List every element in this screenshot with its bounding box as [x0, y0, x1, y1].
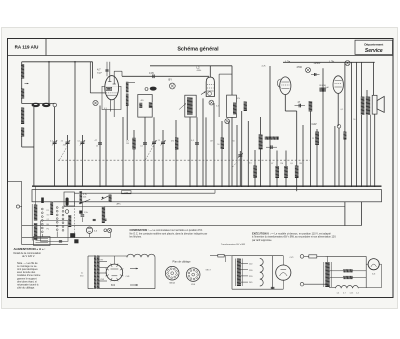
svg-text:L3a: L3a: [286, 60, 291, 64]
svg-text:4,7: 4,7: [343, 293, 346, 295]
wire drop x67.5: [67, 135, 69, 186]
wire x297 drop: [296, 186, 298, 191]
wire left vertical antenna lead: [21, 62, 23, 104]
switch small box: [34, 237, 51, 246]
speaker frame: [372, 95, 377, 114]
volume pot bar: [66, 198, 69, 206]
PSU-B tube: [276, 265, 291, 280]
osc coil core line: [31, 204, 33, 241]
resistor bar x81: [80, 191, 83, 204]
svg-text:de V 120 V.: de V 120 V.: [22, 255, 35, 258]
svg-text:2µF: 2µF: [325, 87, 329, 89]
V1 resistor top wire: [129, 81, 136, 83]
tube V4 electrodes: [335, 80, 342, 82]
PSU-C transformer winding: [325, 262, 329, 287]
trimmer circle: [53, 103, 57, 107]
wire y237.3: [22, 236, 111, 238]
wire drop x303: [302, 125, 304, 186]
inner box line: [75, 192, 216, 194]
wire drop x351: [351, 62, 353, 186]
wire drop x374: [374, 114, 376, 186]
tube V1 grids: [106, 92, 118, 94]
svg-text:SECT: SECT: [206, 270, 212, 272]
wire drop x255: [254, 150, 256, 186]
wire drop x82.4: [81, 135, 83, 186]
PSU-A left lead: [87, 256, 89, 289]
svg-text:465: 465: [141, 100, 144, 102]
osc coil top lead: [35, 186, 37, 204]
screw x349: [345, 61, 350, 66]
resistor on x317: [315, 132, 319, 145]
screw mark under V1: [93, 100, 98, 105]
wire drop x100: [99, 106, 101, 187]
wire drop x241: [241, 111, 243, 186]
svg-text:25: 25: [61, 140, 63, 142]
resistor on x222: [221, 138, 224, 150]
capacitor on x197: [195, 142, 199, 144]
output arrow top: [130, 268, 138, 270]
resistor on x176: [175, 138, 178, 150]
svg-text:ALIMENTATION « A » :: ALIMENTATION « A » :: [14, 247, 46, 251]
cap x60 y240: [59, 240, 62, 242]
wire drop x190: [189, 117, 191, 186]
wire drop x154: [153, 117, 155, 186]
svg-text:0,05: 0,05: [149, 72, 154, 75]
svg-text:4,7: 4,7: [97, 68, 101, 72]
gang diagonal 3: [233, 159, 241, 167]
pot circle below: [65, 210, 69, 214]
svg-text:50: 50: [217, 144, 219, 146]
PSU-C tube: [368, 259, 379, 270]
wire x361 drop: [360, 202, 362, 226]
resistor on x286: [284, 166, 288, 178]
wire drop x286: [285, 151, 287, 187]
IF1 resistor a: [139, 103, 142, 108]
PSU-A taps: [100, 261, 108, 263]
switch contacts column 1: [56, 207, 58, 209]
tuning cap on x163: [161, 141, 165, 143]
PSU-B tube leads: [282, 256, 284, 265]
screw x339: [337, 125, 341, 129]
resistor right of V1 upper: [126, 82, 129, 93]
tube V2 right vertical: [218, 74, 220, 117]
wire drop x145: [144, 117, 146, 186]
svg-text:2M: 2M: [299, 163, 302, 165]
tube V2 envelope: [206, 77, 214, 96]
cap blob below x81: [79, 211, 82, 214]
junction dot x49: [48, 61, 50, 63]
svg-text:0,5: 0,5: [290, 163, 293, 165]
rail right y62.3: [283, 61, 375, 63]
svg-text:Plan de câblage: Plan de câblage: [173, 260, 192, 263]
tube V1 top leads: [109, 62, 111, 82]
svg-text:25: 25: [312, 138, 314, 140]
tube base diagram 2: [186, 268, 200, 282]
tube V1 leads: [109, 100, 111, 112]
svg-text:1,4: 1,4: [337, 293, 340, 295]
capacitor 47 horizontal: [298, 104, 300, 108]
wire drop x335: [334, 126, 336, 186]
tuning cap 3: [80, 141, 84, 143]
svg-text:4700: 4700: [297, 66, 303, 69]
tube V4 envelope: [333, 76, 343, 94]
svg-text:50pF: 50pF: [97, 72, 103, 74]
PSU-A transformer secondary: [97, 256, 100, 290]
resistor x103: [102, 207, 105, 223]
PSU-B right vertical: [272, 256, 274, 290]
label 122 box: [122, 191, 132, 194]
capacitor on x100: [98, 142, 102, 144]
output transformer bottom leads: [360, 115, 362, 186]
resistor bar x69: [68, 215, 71, 227]
vertical drops osc: [41, 234, 43, 237]
PSU-C tap resistor 1: [343, 269, 352, 272]
resistor on x134: [132, 138, 135, 150]
wire drop x206: [205, 117, 207, 186]
wire grid feed: [92, 62, 94, 79]
tube V2 rail right: [219, 73, 232, 75]
PSU-C terminal bottom: [300, 282, 304, 286]
wire drop x237: [236, 125, 238, 186]
svg-text:1M: 1M: [210, 140, 213, 142]
svg-text:Schéma général: Schéma général: [177, 47, 219, 53]
wire V1 to rail y71: [114, 70, 122, 72]
switch unit box: [64, 192, 75, 206]
grid capacitor lead V1: [106, 62, 108, 77]
resistor on x255: [253, 166, 257, 178]
output transformer secondary: [366, 97, 370, 115]
screw mark x227: [225, 119, 230, 124]
resistor x245: [244, 102, 247, 112]
wire drop x49: [48, 62, 50, 103]
svg-text:6,3: 6,3: [216, 106, 219, 108]
wire y205.8: [64, 206, 345, 208]
wire drop x339b: [338, 128, 340, 186]
tube V4 bottom lead: [337, 93, 339, 126]
IF1 resistor b: [149, 102, 152, 107]
svg-text:4,7: 4,7: [50, 140, 53, 142]
big resistor on x260: [259, 134, 263, 149]
PSU-C tap resistor 2: [343, 276, 352, 279]
speaker top lead: [373, 62, 375, 95]
wire top rail left: [22, 61, 93, 63]
padder capacitor blob 1: [32, 103, 40, 107]
tube V3 envelope: [280, 77, 291, 95]
wire drop x106: [105, 110, 107, 187]
dashed gang line: [58, 159, 310, 161]
wire drop x323: [322, 68, 324, 186]
tube V2 grids: [207, 84, 214, 86]
wire drop x197: [196, 117, 198, 186]
PSU-C core lines: [323, 262, 325, 287]
PSU-C left lead: [327, 256, 329, 262]
small cap x94: [93, 218, 96, 220]
trimmer x315: [314, 73, 316, 76]
PSU-B tap labels: [241, 263, 248, 265]
svg-text:0,1: 0,1: [140, 145, 143, 147]
svg-text:Service: Service: [365, 48, 383, 54]
svg-text:0,1: 0,1: [78, 140, 81, 142]
antenna coil L1b: [21, 89, 24, 99]
PSU-A right vertical: [154, 257, 156, 289]
speaker cone: [377, 96, 384, 112]
wire drop x232: [231, 66, 233, 95]
svg-text:47k: 47k: [237, 98, 240, 100]
left vertical x21.7 low: [21, 182, 23, 245]
resistor RG horizontal x265: [265, 137, 279, 140]
PSU-B top rail: [232, 255, 283, 257]
svg-text:25: 25: [96, 146, 98, 148]
wire coil tap: [22, 103, 55, 105]
wire drop x134: [133, 130, 135, 186]
capacitor x82: [81, 214, 85, 216]
switch arrow low: [80, 199, 90, 203]
rectifier vertical lead: [113, 256, 115, 264]
resistor on x296: [295, 166, 299, 179]
svg-text:25: 25: [158, 140, 160, 142]
svg-text:+250V: +250V: [314, 62, 321, 65]
coupling arrow: [25, 83, 29, 85]
svg-text:47k: 47k: [171, 140, 174, 142]
wire y244.6: [22, 244, 68, 246]
wire into V1 left: [89, 62, 91, 93]
PSU-B frame verticals: [231, 256, 233, 290]
box resistor: [233, 103, 236, 115]
antenna coil L2a: [21, 108, 24, 125]
chassis bus: [32, 185, 382, 187]
padder capacitor blob 2: [42, 103, 50, 107]
svg-text:CAV: CAV: [312, 122, 317, 126]
svg-text:1M: 1M: [280, 163, 283, 165]
svg-text:Département: Département: [364, 43, 383, 47]
tube V1 inner anode box: [106, 87, 112, 90]
dial assembly long box: [32, 190, 382, 202]
svg-text:1M: 1M: [126, 143, 129, 145]
wire drop x54.6: [54, 107, 56, 186]
wire drop x214: [213, 103, 215, 186]
wire drop x248: [247, 121, 249, 186]
PSU-C heater squiggle: [336, 285, 359, 288]
resistor on x277: [275, 166, 279, 178]
wire drop x229: [228, 121, 230, 186]
output transformer top leads: [360, 62, 362, 96]
svg-text:50k: 50k: [83, 197, 86, 199]
PSU-A top wire: [100, 255, 128, 257]
wire drop x163: [162, 130, 164, 186]
tuning cap 2: [66, 141, 70, 143]
wire antenna lower lead: [21, 137, 23, 148]
PSU-B input resistor: [218, 254, 224, 257]
tube V3 electrodes: [281, 81, 289, 83]
dark component y239: [74, 239, 78, 243]
svg-text:50: 50: [353, 119, 355, 121]
antenna coil L2b: [21, 128, 24, 137]
screw mark BY: [169, 83, 175, 89]
pickup stub: [104, 207, 106, 222]
wire V3 bottom: [284, 95, 286, 112]
osc coil a: [34, 205, 37, 221]
screw x109 y230: [108, 228, 112, 232]
PSU-A transformer primary: [94, 256, 97, 290]
wire drop x277: [276, 151, 278, 187]
svg-text:AFC: AFC: [117, 203, 122, 206]
tube base diagram 1: [165, 266, 179, 280]
svg-text:6BQ5: 6BQ5: [169, 283, 175, 285]
resistor vertical x310: [309, 101, 313, 111]
switch contacts column 2: [62, 207, 64, 209]
dark component y233: [70, 233, 75, 238]
svg-text:6,3: 6,3: [104, 108, 107, 110]
pickup jack circle: [104, 229, 107, 232]
tuning cap on x240: [238, 154, 242, 156]
PSU-C top rail: [326, 255, 367, 257]
tube V3 hook: [277, 79, 280, 87]
resistor on x345: [343, 132, 346, 140]
svg-text:0,5: 0,5: [249, 162, 252, 164]
tube V2 arrow left: [201, 92, 206, 95]
svg-text:1,4: 1,4: [356, 293, 359, 295]
small grid-cap circle: [145, 88, 148, 91]
terminal left: [16, 205, 19, 208]
capacitor 47 on rail: [270, 145, 272, 149]
resistor x110: [109, 195, 112, 202]
PSU-B secondary loops: [260, 259, 263, 287]
outer schematic frame: [8, 39, 394, 298]
PSU-C bottom rail: [358, 287, 381, 289]
svg-text:1,25: 1,25: [350, 293, 354, 295]
wire drop x123: [122, 117, 124, 186]
rectifier pins: [120, 275, 123, 276]
svg-text:côté du câblage.: côté du câblage.: [17, 286, 35, 289]
tuning cap 1: [53, 141, 57, 143]
tube V2 inner circle: [208, 92, 212, 96]
junction dot x75: [74, 61, 76, 63]
gang diagonal 1: [60, 146, 68, 160]
wire drop x345: [344, 62, 346, 186]
wire drop x296: [296, 111, 298, 186]
svg-text:L3b: L3b: [330, 60, 335, 64]
wire drop x356: [356, 62, 358, 186]
box right of V2: [227, 95, 237, 117]
shield box behind V1: [102, 86, 121, 109]
wire x127 drop: [126, 106, 128, 140]
IF transformer 2 box: [185, 95, 196, 117]
wire drop x370: [369, 115, 371, 186]
dashed link vertical: [74, 203, 76, 239]
wire left frame link: [8, 181, 22, 183]
wire drop x176: [175, 120, 177, 186]
wire drop x317: [316, 129, 318, 186]
osc tube circle: [86, 227, 92, 233]
svg-text:1,5k: 1,5k: [84, 212, 88, 214]
PSU-C tube leads: [365, 256, 367, 287]
PSU-B core lines: [235, 259, 237, 287]
osc bar x42 top: [41, 198, 44, 204]
wire rail y65.8: [150, 65, 232, 67]
PSU-C fuse: [309, 255, 317, 258]
svg-text:0,1: 0,1: [341, 109, 344, 111]
svg-text:47: 47: [63, 145, 65, 147]
switch arrow: [101, 195, 110, 200]
wire rail y76 with capacitor: [122, 75, 209, 77]
switch section box: [41, 221, 68, 242]
departement service box: [355, 40, 393, 54]
screw x306: [306, 68, 311, 73]
PSU-B bottom rail: [232, 288, 283, 290]
switch contacts column 0: [41, 208, 43, 210]
svg-text:50: 50: [233, 140, 235, 142]
barretter squiggle: [127, 254, 155, 257]
rectifier tube circle: [106, 264, 123, 281]
resistor RG36 horizontal: [320, 88, 326, 92]
svg-text:Transformateur BV x BW: Transformateur BV x BW: [221, 243, 246, 246]
svg-text:les flèches.: les flèches.: [130, 236, 143, 239]
resistor right of V1 lower: [126, 94, 129, 106]
wire drop x270: [269, 66, 271, 186]
PSU-A bottom wire: [100, 288, 156, 290]
svg-text:4,7: 4,7: [126, 140, 129, 142]
contact dot: [102, 197, 104, 199]
svg-text:6V4: 6V4: [111, 285, 116, 287]
tube V2 top lead: [209, 66, 211, 77]
long wire y225.6: [22, 225, 362, 227]
output arrow bottom: [130, 284, 138, 286]
PSU-C terminal top: [300, 255, 304, 259]
screw under V2: [209, 100, 214, 105]
wire drop x33.9: [33, 107, 35, 186]
PSU-B transformer winding: [237, 259, 241, 287]
wire drop x222: [221, 121, 223, 186]
osc bar x52: [50, 202, 53, 216]
wire drop x203: [202, 98, 204, 186]
wire x345 drop: [344, 202, 346, 226]
svg-text:L2: L2: [197, 66, 201, 70]
output transformer primary: [361, 97, 365, 115]
wire drop x75: [74, 62, 76, 186]
IF2 trimmer arrow: [179, 103, 186, 109]
antenna coil L1a: [21, 64, 24, 79]
wire drop x310: [310, 111, 312, 186]
wire drop x260: [260, 117, 262, 186]
tuning cap on x154: [152, 141, 156, 143]
PSU-B capacitor: [271, 286, 275, 288]
IF box 1: [138, 95, 152, 118]
capacitor on x145: [143, 142, 147, 144]
IF2 winding: [187, 97, 193, 114]
svg-text:RA 119 A/U: RA 119 A/U: [15, 44, 39, 49]
gang diagonal 2: [146, 146, 154, 160]
capacitor 0,05: [152, 75, 154, 79]
svg-text:47: 47: [271, 163, 273, 165]
svg-text:par tarif supportée.: par tarif supportée.: [252, 239, 272, 242]
electrolytic blob: [150, 87, 157, 91]
osc coil b: [34, 223, 37, 240]
tube V1 envelope: [105, 76, 119, 100]
svg-text:BY: BY: [169, 78, 173, 82]
junction dots on bus: [74, 185, 76, 187]
header band bottom rule: [8, 55, 394, 57]
title block divider left: [45, 39, 47, 56]
svg-text:2x: 2x: [81, 273, 83, 275]
